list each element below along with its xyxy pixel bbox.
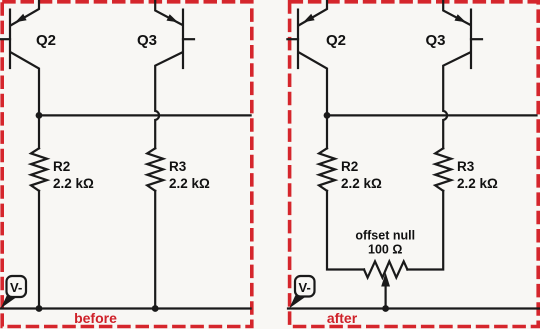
svg-text:before: before xyxy=(74,310,117,326)
svg-text:V-: V- xyxy=(299,280,311,295)
svg-text:R2: R2 xyxy=(53,159,70,174)
transistor Q3 base bar xyxy=(182,10,184,68)
svg-text:offset null: offset null xyxy=(355,229,415,243)
transistor Q3 base bar xyxy=(470,10,472,68)
svg-text:R2: R2 xyxy=(341,159,358,174)
potentiometer wiper wire xyxy=(385,286,387,309)
svg-text:Q3: Q3 xyxy=(137,32,157,49)
transistor Q2 base wire xyxy=(0,38,10,40)
transistor Q2 emitter wire xyxy=(11,0,39,25)
resistor R3 bottom wire to potentiometer xyxy=(407,191,443,270)
resistor R2 zigzag xyxy=(31,148,47,191)
transistor Q2 collector wire xyxy=(299,53,327,149)
transistor Q2 emitter wire xyxy=(299,0,327,25)
svg-text:Q2: Q2 xyxy=(326,32,346,49)
junction dot R3 / V- rail xyxy=(152,305,159,312)
junction dot Q2 collector / rail xyxy=(36,112,43,119)
svg-text:100 Ω: 100 Ω xyxy=(368,242,402,256)
resistor R2 bottom wire to potentiometer xyxy=(327,191,364,270)
transistor Q2 base bar xyxy=(9,10,11,68)
transistor Q3 base stub xyxy=(183,38,194,40)
svg-text:Q2: Q2 xyxy=(36,32,56,49)
V- bottom rail wire xyxy=(0,307,251,309)
transistor Q3 emitter arrow (PNP) xyxy=(455,14,467,22)
svg-text:R3: R3 xyxy=(457,159,475,174)
V- bottom rail wire xyxy=(288,307,540,309)
panel border (red dashed) xyxy=(2,2,252,327)
resistor R2 zigzag xyxy=(319,148,335,191)
transistor Q3 emitter arrow (PNP) xyxy=(167,14,179,22)
transistor Q2 base bar xyxy=(297,10,299,68)
transistor Q3 collector wire with hop over rail xyxy=(443,53,470,149)
transistor Q2 collector wire xyxy=(11,53,39,149)
transistor Q3 emitter wire xyxy=(443,0,470,25)
resistor R3 zigzag xyxy=(147,148,163,191)
junction dot wiper / V- rail xyxy=(382,305,389,312)
junction dot Q2 collector / rail xyxy=(324,112,331,119)
svg-text:R3: R3 xyxy=(169,159,187,174)
svg-text:2.2 kΩ: 2.2 kΩ xyxy=(169,176,210,191)
junction dot R2 / V- rail xyxy=(36,305,43,312)
svg-text:2.2 kΩ: 2.2 kΩ xyxy=(457,176,498,191)
V- callout balloon xyxy=(289,276,314,308)
potentiometer zigzag (offset null) xyxy=(364,261,407,277)
transistor Q2 emitter arrow (PNP) xyxy=(303,14,314,22)
svg-text:2.2 kΩ: 2.2 kΩ xyxy=(341,176,382,191)
svg-text:2.2 kΩ: 2.2 kΩ xyxy=(53,176,94,191)
svg-text:Q3: Q3 xyxy=(426,32,446,49)
collector rail wire xyxy=(39,114,251,116)
svg-text:after: after xyxy=(327,310,358,326)
transistor Q2 emitter arrow (PNP) xyxy=(15,14,26,22)
collector rail wire xyxy=(327,114,537,116)
svg-text:V-: V- xyxy=(10,280,22,295)
potentiometer wiper arrow xyxy=(381,273,390,287)
resistor R3 zigzag xyxy=(435,148,451,191)
resistor R3 bottom wire xyxy=(154,191,156,309)
transistor Q3 base stub xyxy=(471,38,482,40)
panel border (red dashed) xyxy=(290,2,539,327)
V- callout balloon xyxy=(1,276,26,308)
transistor Q3 collector wire with hop over rail xyxy=(155,53,182,149)
transistor Q2 base wire xyxy=(287,38,298,40)
transistor Q3 emitter wire xyxy=(155,0,182,25)
resistor R2 bottom wire xyxy=(38,191,40,309)
